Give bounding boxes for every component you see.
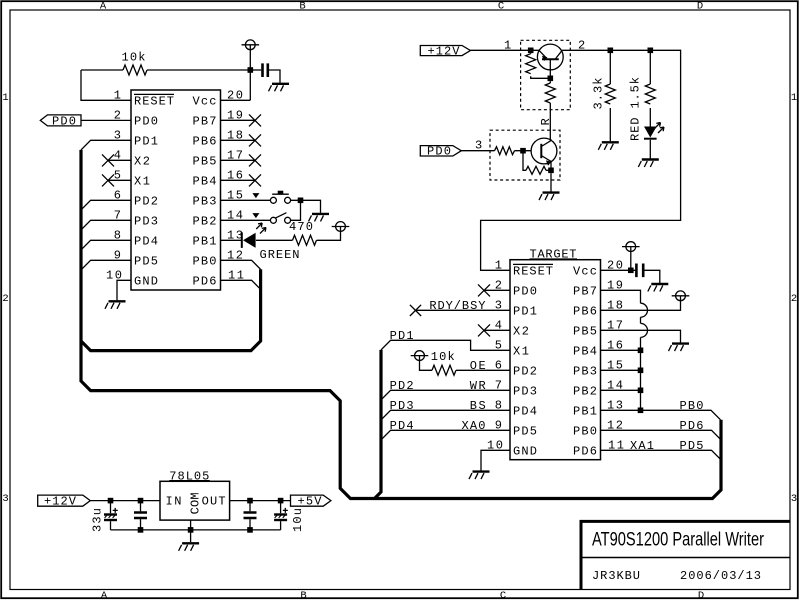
resistor R 10k OE pull-up xyxy=(420,361,511,376)
ground at red LED xyxy=(638,160,659,168)
svg-text:10u: 10u xyxy=(291,508,305,532)
wire U1 pin11 PD6 to bus xyxy=(221,280,261,289)
svg-text:GREEN: GREEN xyxy=(260,248,300,262)
svg-text:R: R xyxy=(539,118,553,125)
svg-text:PB2: PB2 xyxy=(573,384,597,398)
IC U3 78L05 body xyxy=(160,481,230,520)
wire red LED to ground xyxy=(649,140,651,159)
wire U2 pin3 PD1 (RDY/BSY) xyxy=(416,309,511,311)
svg-text:A: A xyxy=(100,1,107,13)
svg-text:X1: X1 xyxy=(513,344,529,358)
svg-text:C: C xyxy=(498,1,504,13)
svg-text:X1: X1 xyxy=(134,174,150,188)
wire U1 pin15 PB3 to pushbutton xyxy=(221,199,271,201)
wire U2 pin18 PB6 to power xyxy=(601,301,681,311)
svg-text:33u: 33u xyxy=(91,508,105,532)
wire U1 pin14 PB2 to switch SW2 xyxy=(221,219,271,221)
svg-text:PD5: PD5 xyxy=(513,424,537,438)
svg-text:PB7: PB7 xyxy=(573,284,597,298)
svg-text:B: B xyxy=(299,1,305,13)
wire U2 pin12 PB0 to bus xyxy=(601,430,721,439)
wire PD0 tag to Q2 xyxy=(461,150,494,152)
wire COM junction to ground symbol xyxy=(190,530,192,542)
press marker arrow at pin14 xyxy=(252,213,259,218)
svg-text:RDY/BSY: RDY/BSY xyxy=(429,299,485,313)
node junction ground rail at 0.1u right xyxy=(247,527,253,533)
wire U2 pin13 PB1 to bus xyxy=(601,410,721,420)
svg-text:IN: IN xyxy=(166,495,182,509)
svg-text:PD1: PD1 xyxy=(513,304,537,318)
no-connect X U1 pin19 PB7 xyxy=(221,114,262,126)
svg-text:10k: 10k xyxy=(122,51,146,65)
no-connect X U1 pin18 PB6 xyxy=(221,134,262,146)
svg-text:PD1: PD1 xyxy=(134,134,158,148)
no-connect X U1 pin16 PB4 xyxy=(221,174,262,186)
wire U2 pin11 PD6 to bus xyxy=(601,450,721,459)
svg-text:PD4: PD4 xyxy=(513,404,537,418)
node junction output rail at 10u xyxy=(278,498,284,504)
wire U1 pin12 PB0 to bus xyxy=(221,260,261,269)
svg-text:OUT: OUT xyxy=(202,495,226,509)
wire U2 pin20 Vcc xyxy=(601,269,636,271)
svg-text:Vcc: Vcc xyxy=(193,94,217,108)
wire U1 pin9 PD5 to bus xyxy=(81,260,131,270)
no-connect X U2 pin2 PD0 xyxy=(478,284,510,296)
node junction Q2 emitter xyxy=(548,168,554,174)
wire U1 pin7 PD3 to bus xyxy=(81,220,131,230)
resistor R 10k (reset pull-up) xyxy=(81,65,250,75)
resistor R 3.3k xyxy=(605,50,615,141)
svg-text:JR3KBU: JR3KBU xyxy=(592,569,640,583)
svg-text:PB0: PB0 xyxy=(573,424,597,438)
wire U1 pin13 PB1 to LED xyxy=(221,239,242,241)
svg-text:XA0: XA0 xyxy=(462,419,486,433)
svg-text:RED 1.5k: RED 1.5k xyxy=(629,77,643,141)
wire U1 pin6 PD2 to bus xyxy=(81,200,131,210)
svg-text:PD6: PD6 xyxy=(680,419,704,433)
svg-text:1: 1 xyxy=(2,92,8,104)
capacitor C bypass U2 xyxy=(636,264,659,284)
svg-text:+12V: +12V xyxy=(44,495,77,509)
svg-text:PB4: PB4 xyxy=(573,344,597,358)
label TARGET underlined xyxy=(530,248,578,262)
node junction ground rail at COM xyxy=(188,527,194,533)
svg-text:PD0: PD0 xyxy=(513,284,537,298)
resistor Q1 internal base-emitter xyxy=(526,50,551,78)
ground at regulator COM xyxy=(179,543,200,551)
svg-text:X2: X2 xyxy=(134,154,150,168)
svg-text:D: D xyxy=(697,1,703,13)
svg-text:2: 2 xyxy=(2,293,8,305)
toggle switch SW2 xyxy=(270,213,290,224)
svg-text:BS: BS xyxy=(470,399,486,413)
label 78L05 underlined xyxy=(169,469,210,483)
resistor R 470 xyxy=(256,231,341,245)
svg-text:PB6: PB6 xyxy=(573,304,597,318)
IC U2 TARGET body xyxy=(510,260,601,460)
wire U2 pin16 PB4 xyxy=(601,349,641,351)
node junction Q1 base xyxy=(548,76,554,82)
svg-text:RESET: RESET xyxy=(513,264,553,278)
svg-text:1: 1 xyxy=(504,38,511,52)
no-connect X on RDY/BSY wire xyxy=(410,305,421,316)
IC U2 left pin numbers 1-10 xyxy=(487,258,503,452)
svg-text:PB5: PB5 xyxy=(193,154,217,168)
svg-text:PD3: PD3 xyxy=(134,214,158,228)
svg-text:PD5: PD5 xyxy=(134,254,158,268)
ground at switches xyxy=(309,214,330,222)
bus wire left loop (U1 to target) xyxy=(81,150,721,499)
svg-text:GND: GND xyxy=(134,274,158,288)
node junction PB2 xyxy=(638,388,644,394)
node junction Vcc/10k/cap xyxy=(248,67,254,73)
svg-text:A: A xyxy=(101,590,108,600)
svg-text:PB7: PB7 xyxy=(193,114,217,128)
wire PD1 tap to U2 pin5 X1 xyxy=(381,340,510,350)
svg-text:Vcc: Vcc xyxy=(573,264,597,278)
node junction PB4 xyxy=(638,348,644,354)
svg-text:PB1: PB1 xyxy=(573,404,597,418)
no-connect X U1 pin5 X1 xyxy=(102,174,131,186)
svg-text:D: D xyxy=(698,590,704,600)
svg-text:3.3k: 3.3k xyxy=(592,78,606,110)
wire +12V to Q1 emitter xyxy=(470,49,539,51)
svg-text:3: 3 xyxy=(791,493,797,505)
svg-text:X2: X2 xyxy=(513,324,529,338)
IC U1 AT90S1200 writer body xyxy=(131,90,221,290)
node junction input rail at 0.1u xyxy=(138,498,144,504)
svg-text:2006/03/13: 2006/03/13 xyxy=(680,569,761,583)
pushbutton SW1 xyxy=(270,191,290,204)
resistor Q2 internal series xyxy=(495,147,532,155)
wire U1 pin3 PD1 to bus xyxy=(81,140,131,150)
capacitor C 33u electrolytic xyxy=(104,501,118,530)
svg-text:PB3: PB3 xyxy=(193,194,217,208)
svg-text:PD2: PD2 xyxy=(134,194,158,208)
wire Q2 emitter to ground xyxy=(550,173,552,192)
ground at U2 pin10 xyxy=(469,472,490,480)
dashed box digital transistor Q2 xyxy=(490,130,560,180)
svg-text:PD5: PD5 xyxy=(680,439,704,453)
wire power to Vcc node xyxy=(630,252,632,271)
wire U2 pin17 PB5 to ground xyxy=(601,330,681,342)
wire U2 pin19 PB7 with hops xyxy=(601,290,648,410)
node junction ground rail at 0.1u left xyxy=(138,527,144,533)
resistor R 1.5k xyxy=(645,50,655,126)
press marker arrow at pin15 xyxy=(252,193,259,198)
resistor Q2 internal base-emitter xyxy=(523,154,551,175)
ground at U1 pin10 xyxy=(105,301,126,309)
wire SW1 to ground node xyxy=(291,200,321,213)
svg-text:C: C xyxy=(500,590,506,600)
IC U1 left pin numbers 1-10 xyxy=(106,88,122,282)
svg-text:OE: OE xyxy=(470,359,486,373)
svg-text:PB0: PB0 xyxy=(193,254,217,268)
svg-text:PB3: PB3 xyxy=(573,364,597,378)
svg-text:1: 1 xyxy=(495,258,502,272)
svg-text:PB0: PB0 xyxy=(680,399,704,413)
svg-text:2: 2 xyxy=(791,293,797,305)
svg-text:COM: COM xyxy=(189,492,203,514)
svg-text:470: 470 xyxy=(289,220,313,234)
node junction Q1 base resistor tap xyxy=(528,48,534,54)
no-connect X U2 pin4 X2 xyxy=(478,324,510,336)
wire U1 pin1 RESET to pull-up xyxy=(81,70,131,100)
wire COM to ground rail xyxy=(190,520,192,530)
dashed box digital transistor Q1 xyxy=(521,40,571,109)
wire regulator OUT to +5V xyxy=(230,500,291,502)
power symbol at 470 resistor xyxy=(332,222,350,232)
svg-text:PD0: PD0 xyxy=(52,114,76,128)
wire PD4 tap to U2 pin9 xyxy=(382,430,510,439)
wire PD3 tap to U2 pin8 xyxy=(382,410,510,419)
title block frame xyxy=(580,521,791,589)
svg-text:+5V: +5V xyxy=(298,495,323,509)
IC U2 pin name RESET with overline xyxy=(513,264,553,278)
LED D red xyxy=(644,123,664,139)
no-connect X U1 pin4 X2 xyxy=(102,154,131,166)
power symbol at U2 Vcc xyxy=(622,242,640,252)
wire power to U1 pin20 Vcc xyxy=(221,50,251,101)
capacitor C 10u electrolytic xyxy=(274,501,288,530)
svg-text:PD6: PD6 xyxy=(573,444,597,458)
wire U1 pin10 GND xyxy=(117,280,131,300)
svg-text:PB5: PB5 xyxy=(573,324,597,338)
transistor Q2 NPN xyxy=(531,138,557,170)
svg-text:PD3: PD3 xyxy=(513,384,537,398)
svg-text:B: B xyxy=(300,590,306,600)
node junction input rail at 33u xyxy=(108,498,114,504)
svg-text:+12V: +12V xyxy=(428,44,461,58)
resistor Q1 internal series xyxy=(545,81,555,139)
node junction U2 Vcc xyxy=(628,268,634,274)
net tag +12V (regulator input) xyxy=(38,495,91,509)
svg-text:1: 1 xyxy=(791,92,797,104)
node junction collector rail at 3.3k xyxy=(608,48,614,54)
svg-text:PD0: PD0 xyxy=(427,145,451,159)
svg-text:AT90S1200 Parallel Writer: AT90S1200 Parallel Writer xyxy=(592,530,765,551)
node junction PB3 xyxy=(638,368,644,374)
power symbol at PB6 xyxy=(672,291,690,301)
ground at 3.3k xyxy=(598,142,619,150)
svg-text:PD6: PD6 xyxy=(193,274,217,288)
net tag PD0 (to Q2) xyxy=(420,145,461,159)
svg-text:PB4: PB4 xyxy=(193,174,217,188)
wire U2 pin14 PB2 xyxy=(601,389,641,391)
capacitor C 0.1u input xyxy=(134,501,147,530)
LED D green xyxy=(242,223,266,248)
wire PD2 tap to U2 pin7 xyxy=(382,390,510,399)
svg-text:PD4: PD4 xyxy=(134,234,158,248)
power symbol at OE pull-up xyxy=(411,351,429,361)
ground at Q2 emitter xyxy=(539,193,560,201)
svg-text:RESET: RESET xyxy=(134,94,174,108)
ground at U1 bypass cap xyxy=(269,84,290,92)
power symbol +5V at reset pull-up xyxy=(242,40,260,50)
IC U1 right pin numbers 20-11 xyxy=(227,88,244,282)
wire junction down to SW2 xyxy=(291,200,301,220)
node junction switches xyxy=(298,198,304,204)
transistor Q1 PNP xyxy=(537,44,563,78)
node junction output rail at 0.1u xyxy=(247,498,253,504)
svg-text:PB1: PB1 xyxy=(193,234,217,248)
wire U1 pin8 PD4 to bus xyxy=(81,240,131,250)
svg-text:GND: GND xyxy=(513,444,537,458)
wire U2 pin15 PB3 xyxy=(601,369,641,371)
net tag +5V (regulator output) xyxy=(291,495,331,509)
svg-text:PB2: PB2 xyxy=(193,214,217,228)
wire Q1 collector to loads xyxy=(481,50,681,270)
node junction Q2 base tap xyxy=(520,148,526,154)
capacitor C 0.1u output xyxy=(244,501,257,530)
svg-text:PB6: PB6 xyxy=(193,134,217,148)
IC U1 pin name RESET with overline xyxy=(134,94,174,108)
node junction collector rail at 1.5k xyxy=(648,48,654,54)
svg-text:WR: WR xyxy=(470,379,486,393)
net tag PD0 (input, left) xyxy=(40,114,81,128)
wire U1 pin2 PD0 xyxy=(81,119,131,121)
bottom ground rail xyxy=(111,529,281,531)
IC U2 right pin numbers 20-11 xyxy=(607,258,624,452)
svg-text:10k: 10k xyxy=(431,350,455,364)
svg-text:PD2: PD2 xyxy=(513,364,537,378)
net tag +12V (top right) xyxy=(420,44,470,58)
ground at U2 bypass cap xyxy=(648,284,669,292)
capacitor C bypass U1 xyxy=(250,63,280,82)
wire U2 pin10 GND xyxy=(481,450,510,470)
no-connect X U1 pin17 PB5 xyxy=(221,154,262,166)
wire +12V to regulator IN xyxy=(90,500,160,502)
svg-text:3: 3 xyxy=(2,493,8,505)
svg-text:PD0: PD0 xyxy=(134,114,158,128)
ground at PB5 xyxy=(669,344,690,352)
node junction PB1 xyxy=(638,408,644,414)
